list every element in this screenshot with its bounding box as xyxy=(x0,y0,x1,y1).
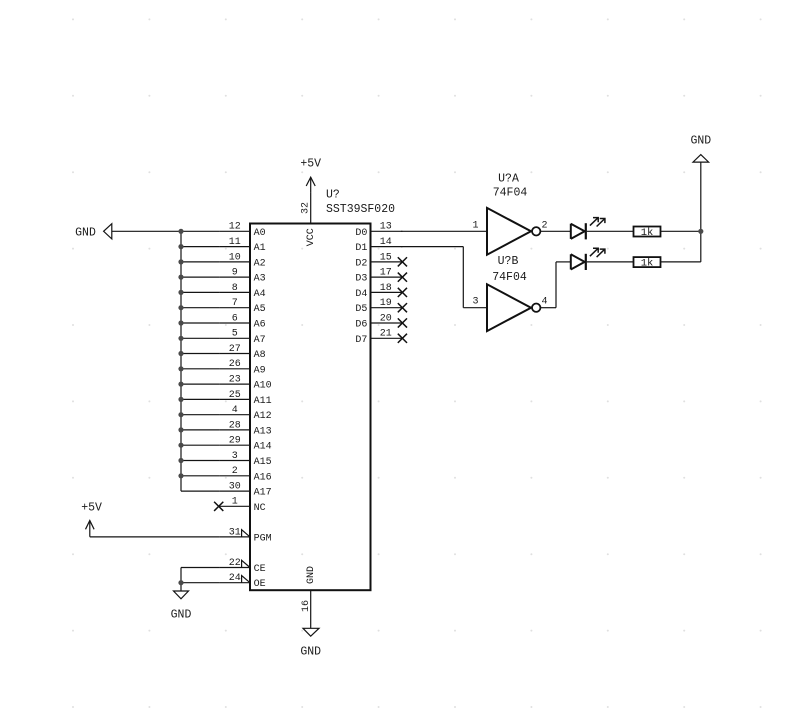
svg-text:A16: A16 xyxy=(254,472,272,483)
IC pin 24 OE xyxy=(219,573,265,590)
svg-text:21: 21 xyxy=(380,329,392,340)
IC pin 25 A11 xyxy=(219,390,271,407)
svg-text:3: 3 xyxy=(472,297,478,308)
IC pin 29 A14 xyxy=(219,436,271,453)
wire D0 to U?A input xyxy=(401,230,487,232)
svg-text:GND: GND xyxy=(300,646,321,659)
inverter U?B 74F04 xyxy=(487,284,540,331)
svg-text:13: 13 xyxy=(380,222,392,233)
junction at bus row A11 xyxy=(178,397,183,402)
wire LED1 to R1 xyxy=(587,230,633,232)
wire D1 to U?B input xyxy=(401,247,487,308)
svg-text:22: 22 xyxy=(229,558,241,569)
svg-text:24: 24 xyxy=(229,573,241,584)
junction at bus row A3 xyxy=(178,275,183,280)
svg-text:20: 20 xyxy=(380,313,392,324)
junction at bus row A10 xyxy=(178,382,183,387)
svg-text:2: 2 xyxy=(232,466,238,477)
svg-text:OE: OE xyxy=(254,579,266,590)
svg-text:PGM: PGM xyxy=(254,533,272,544)
IC pin 20 D6 xyxy=(355,313,402,330)
svg-text:25: 25 xyxy=(229,390,241,401)
junction at bus row A12 xyxy=(178,412,183,417)
wire bus to A14 xyxy=(181,444,219,446)
svg-text:A5: A5 xyxy=(254,304,266,315)
wire R1 to GND rail xyxy=(661,230,701,232)
wire bus to A9 xyxy=(181,368,219,370)
IC pin 3 A15 xyxy=(219,451,271,468)
svg-text:31: 31 xyxy=(229,527,241,538)
IC pin 27 A8 xyxy=(219,344,265,361)
wire bus to A12 xyxy=(181,414,219,416)
wire address bus vertical xyxy=(180,231,182,491)
wire U?A output to LED1 xyxy=(540,230,570,232)
IC pin 9 A3 xyxy=(219,268,265,285)
svg-text:1: 1 xyxy=(232,497,238,508)
no-connect X on NC pin xyxy=(214,502,223,511)
inverter U?A 74F04 xyxy=(487,208,540,255)
IC pin 21 D7 xyxy=(355,329,402,346)
svg-text:3: 3 xyxy=(232,451,238,462)
wire U?B output xyxy=(540,262,570,308)
wire bus to A5 xyxy=(181,307,219,309)
IC pin 12 A0 xyxy=(219,222,265,239)
svg-text:A14: A14 xyxy=(254,442,272,453)
IC pin 4 A12 xyxy=(219,405,271,422)
junction at bus row A5 xyxy=(178,305,183,310)
svg-text:12: 12 xyxy=(229,222,241,233)
junction at GND rail xyxy=(698,229,703,234)
IC pin 5 A7 xyxy=(219,329,265,346)
svg-text:4: 4 xyxy=(541,297,547,308)
svg-text:2: 2 xyxy=(541,220,547,231)
wire OE xyxy=(181,582,219,584)
wire bus to A6 xyxy=(181,322,219,324)
LED 2 xyxy=(571,248,605,270)
svg-text:D2: D2 xyxy=(355,258,367,269)
svg-text:A2: A2 xyxy=(254,258,266,269)
svg-text:D0: D0 xyxy=(355,228,367,239)
wire LED2 to R2 xyxy=(587,261,633,263)
wire bus to A13 xyxy=(181,429,219,431)
wire bus to A10 xyxy=(181,383,219,385)
svg-text:9: 9 xyxy=(232,268,238,279)
IC pin 2 A16 xyxy=(219,466,271,483)
resistor R2 1k xyxy=(634,257,661,270)
svg-text:D7: D7 xyxy=(355,335,367,346)
IC pin 15 D2 xyxy=(355,252,402,269)
LED 1 xyxy=(571,218,605,240)
svg-text:D4: D4 xyxy=(355,289,367,300)
IC pin 7 A5 xyxy=(219,298,265,315)
IC pin 8 A4 xyxy=(219,283,265,300)
no-connect X on D3 xyxy=(398,273,407,282)
svg-text:A10: A10 xyxy=(254,381,272,392)
wire bus to A7 xyxy=(181,337,219,339)
svg-text:GND: GND xyxy=(306,566,317,584)
svg-text:D1: D1 xyxy=(355,243,367,254)
junction at bus row A14 xyxy=(178,443,183,448)
junction at bus row A1 xyxy=(178,244,183,249)
svg-text:A12: A12 xyxy=(254,411,272,422)
no-connect X on D2 xyxy=(398,257,407,266)
IC pin 22 CE xyxy=(219,558,265,575)
svg-text:15: 15 xyxy=(380,252,392,263)
junction at bus row A7 xyxy=(178,336,183,341)
svg-text:A8: A8 xyxy=(254,350,266,361)
svg-text:A7: A7 xyxy=(254,335,266,346)
svg-text:A9: A9 xyxy=(254,365,266,376)
wire CE-OE vertical to GND xyxy=(180,568,182,592)
svg-text:23: 23 xyxy=(229,375,241,386)
svg-text:GND: GND xyxy=(690,134,711,147)
IC pin 23 A10 xyxy=(219,375,271,392)
svg-text:A1: A1 xyxy=(254,243,266,254)
no-connect X on D4 xyxy=(398,288,407,297)
IC pin 1 NC xyxy=(219,497,265,514)
svg-text:A13: A13 xyxy=(254,426,272,437)
IC pin 26 A9 xyxy=(219,359,265,376)
junction at bus row A9 xyxy=(178,366,183,371)
wire +5V to PGM xyxy=(90,536,220,538)
wire bus to A16 xyxy=(181,475,219,477)
svg-text:A3: A3 xyxy=(254,274,266,285)
wire GND label to A0 xyxy=(112,230,220,232)
svg-text:28: 28 xyxy=(229,420,241,431)
svg-text:27: 27 xyxy=(229,344,241,355)
svg-text:CE: CE xyxy=(254,564,266,575)
svg-text:17: 17 xyxy=(380,268,392,279)
svg-text:A6: A6 xyxy=(254,320,266,331)
svg-text:16: 16 xyxy=(301,600,312,612)
svg-text:7: 7 xyxy=(232,298,238,309)
IC pin 18 D4 xyxy=(355,283,402,300)
wire R2 to GND rail xyxy=(661,261,701,263)
svg-text:A15: A15 xyxy=(254,457,272,468)
svg-text:6: 6 xyxy=(232,313,238,324)
svg-text:D5: D5 xyxy=(355,304,367,315)
IC U? SST39SF020 body xyxy=(250,224,371,591)
power +5V (left) xyxy=(81,502,102,537)
IC pin 14 D1 xyxy=(355,237,402,254)
IC pin 28 A13 xyxy=(219,420,271,437)
svg-text:74F04: 74F04 xyxy=(493,186,528,199)
svg-text:GND: GND xyxy=(171,609,192,622)
wire CE xyxy=(181,567,219,569)
no-connect X on D5 xyxy=(398,303,407,312)
no-connect X on D6 xyxy=(398,318,407,327)
IC pin 30 A17 xyxy=(219,482,271,499)
svg-text:18: 18 xyxy=(380,283,392,294)
svg-text:1: 1 xyxy=(472,220,478,231)
junction at bus row A6 xyxy=(178,320,183,325)
IC pin 19 D5 xyxy=(355,298,402,315)
svg-text:30: 30 xyxy=(229,482,241,493)
wire bus to A11 xyxy=(181,398,219,400)
svg-text:+5V: +5V xyxy=(81,502,102,515)
wire bus to A8 xyxy=(181,353,219,355)
wire bus to A4 xyxy=(181,291,219,293)
svg-text:D3: D3 xyxy=(355,274,367,285)
svg-text:26: 26 xyxy=(229,359,241,370)
wire bus to A17 xyxy=(181,490,219,492)
svg-text:U?: U? xyxy=(326,189,340,202)
svg-text:U?A: U?A xyxy=(498,173,519,186)
wire bus to A3 xyxy=(181,276,219,278)
junction at bus row A16 xyxy=(178,473,183,478)
svg-text:29: 29 xyxy=(229,436,241,447)
IC pin 32 VCC xyxy=(301,193,318,246)
svg-text:5: 5 xyxy=(232,329,238,340)
svg-text:14: 14 xyxy=(380,237,392,248)
svg-text:8: 8 xyxy=(232,283,238,294)
IC pin 6 A6 xyxy=(219,313,265,330)
junction at bus row A15 xyxy=(178,458,183,463)
svg-text:+5V: +5V xyxy=(300,158,321,171)
svg-text:A0: A0 xyxy=(254,228,266,239)
svg-text:VCC: VCC xyxy=(306,228,317,246)
junction at bus row A0 xyxy=(178,229,183,234)
IC pin 31 PGM xyxy=(219,527,271,544)
power GND (bottom center) xyxy=(300,628,321,658)
power GND (top right) xyxy=(690,134,711,162)
wire GND rail vertical xyxy=(700,162,702,262)
global label GND (left) xyxy=(75,224,112,240)
svg-text:11: 11 xyxy=(229,237,241,248)
svg-text:32: 32 xyxy=(301,202,312,214)
junction at OE xyxy=(178,580,183,585)
svg-text:GND: GND xyxy=(75,226,96,239)
IC pin 16 GND xyxy=(301,566,317,628)
wire bus to A15 xyxy=(181,460,219,462)
svg-text:A11: A11 xyxy=(254,396,272,407)
svg-text:19: 19 xyxy=(380,298,392,309)
IC pin 10 A2 xyxy=(219,252,265,269)
svg-text:D6: D6 xyxy=(355,320,367,331)
power GND (left) xyxy=(171,591,192,622)
power +5V (top) xyxy=(300,158,321,193)
IC pin 13 D0 xyxy=(355,222,402,239)
svg-text:A4: A4 xyxy=(254,289,266,300)
svg-text:10: 10 xyxy=(229,252,241,263)
svg-text:1k: 1k xyxy=(641,258,654,270)
svg-text:1k: 1k xyxy=(641,227,654,239)
IC pin 11 A1 xyxy=(219,237,265,254)
no-connect X on D7 xyxy=(398,334,407,343)
svg-text:SST39SF020: SST39SF020 xyxy=(326,203,395,216)
svg-text:4: 4 xyxy=(232,405,238,416)
resistor R1 1k xyxy=(634,227,661,240)
junction at bus row A4 xyxy=(178,290,183,295)
junction at bus row A8 xyxy=(178,351,183,356)
wire bus to A1 xyxy=(181,246,219,248)
svg-text:A17: A17 xyxy=(254,488,272,499)
junction at bus row A2 xyxy=(178,259,183,264)
svg-text:74F04: 74F04 xyxy=(492,271,527,284)
wire bus to A2 xyxy=(181,261,219,263)
IC pin 17 D3 xyxy=(355,268,402,285)
svg-text:U?B: U?B xyxy=(498,255,519,268)
junction at bus row A13 xyxy=(178,427,183,432)
svg-text:NC: NC xyxy=(254,503,266,514)
